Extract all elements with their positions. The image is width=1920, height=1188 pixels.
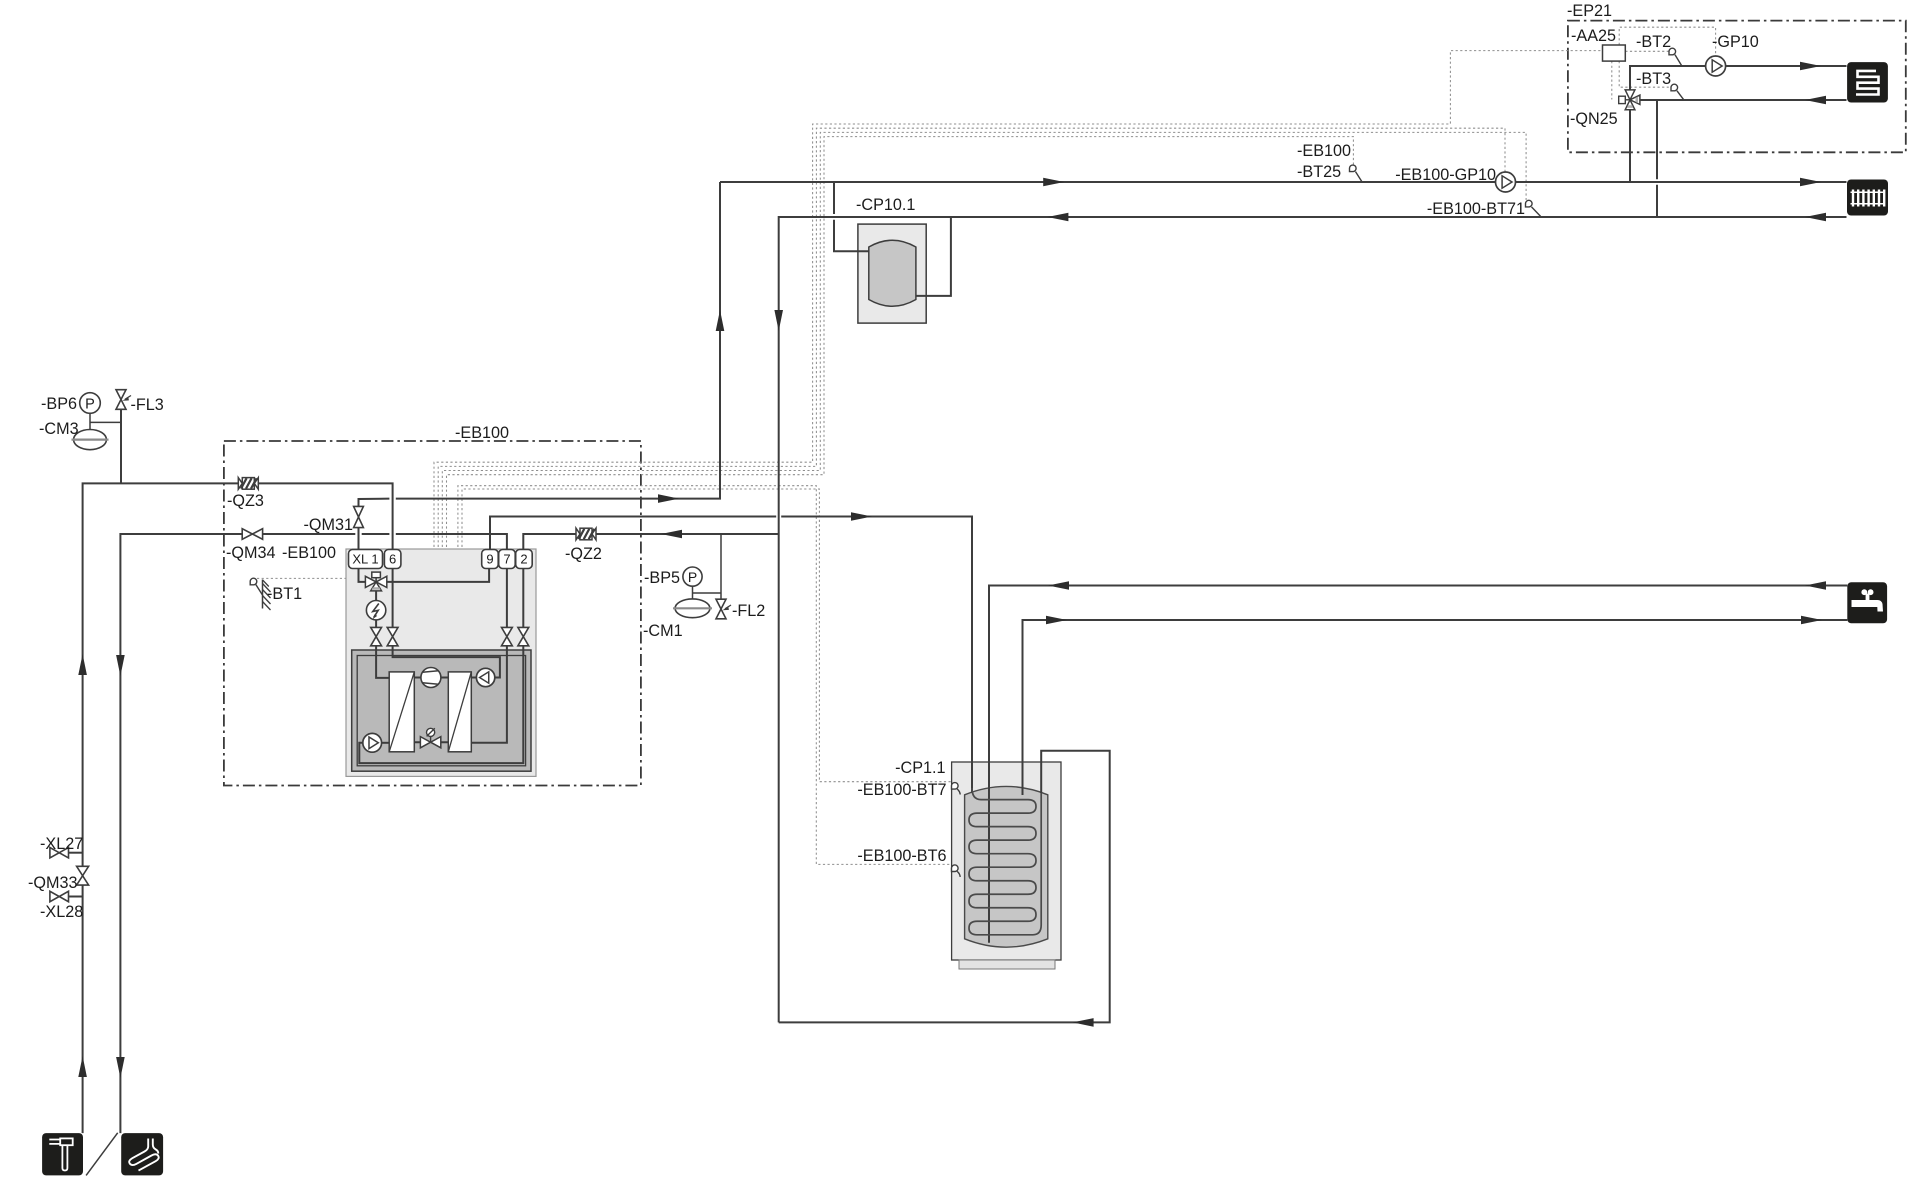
svg-text:-EB100: -EB100 — [282, 544, 336, 562]
wire/pipe: domestic hot water line from tank to tap — [1023, 620, 1848, 795]
svg-text:-EB100: -EB100 — [455, 424, 509, 442]
circulation pump GP10 — [1706, 56, 1726, 76]
shutoff valve on port 6 riser — [387, 627, 398, 645]
sensor EB100-BT7 flag at tank — [952, 783, 961, 795]
port label 6 — [384, 550, 401, 569]
safety valve FL2 — [716, 599, 731, 619]
internal pipe: port 6 to brine pump — [393, 567, 500, 678]
arrow: brine up 1 — [78, 654, 87, 675]
arrow: hot water mid — [1046, 616, 1067, 625]
svg-text:9: 9 — [486, 552, 493, 567]
svg-text:-QZ3: -QZ3 — [227, 492, 264, 510]
wire/pipe: brine-out line from port 7 to ground source (gaps at XL1 and port-6 risers) — [120, 534, 507, 1133]
svg-text:-AA25: -AA25 — [1571, 27, 1616, 45]
wire/pipe: domestic cold water line into tank dip tube — [989, 586, 1847, 943]
hot water tank CP1.1 casing — [952, 762, 1061, 960]
control module AA25 — [1603, 45, 1626, 61]
control wire bundle: unit to sensor EB100-BT25 (wire 4) — [447, 137, 1354, 547]
pressure gauge BP6 — [80, 393, 101, 414]
heating medium pump (left, internal) — [363, 733, 382, 752]
shutoff valve on port 2 riser — [518, 627, 529, 645]
connection XL27 — [50, 848, 69, 858]
arrow: supply trunk mid — [1043, 178, 1064, 187]
svg-text:-CP10.1: -CP10.1 — [856, 196, 915, 214]
arrow: supply out of unit — [658, 494, 679, 503]
svg-text:-EB100-BT6: -EB100-BT6 — [857, 847, 946, 865]
filling valve component QZ3 — [238, 478, 258, 490]
internal 3-way valve QN10 — [365, 572, 386, 591]
brine pump (right, internal) — [476, 668, 494, 686]
shutoff valve on XL1 riser — [371, 627, 382, 645]
svg-text:-EB100-BT7: -EB100-BT7 — [857, 781, 946, 799]
control wire: unit to tank sensor EB100-BT7 — [462, 489, 952, 782]
wire/pipe: BP5/CM1/FL2 branch — [693, 534, 722, 600]
condenser heat exchanger — [389, 672, 414, 752]
heat pump inner module (dark enclosure, double border) — [352, 650, 531, 771]
svg-text:-BT1: -BT1 — [267, 585, 302, 603]
control wire: AA25 to sensor BT2 — [1625, 50, 1668, 52]
arrow: return trunk at radiator — [1805, 213, 1826, 222]
svg-text:-FL3: -FL3 — [131, 396, 164, 414]
arrow: hot water at tap — [1801, 616, 1822, 625]
svg-text:-CM3: -CM3 — [39, 420, 79, 438]
control wire: unit to tank sensor EB100-BT6 — [458, 486, 952, 865]
shutoff valve QM31 — [354, 506, 364, 527]
safety valve FL3 — [116, 390, 131, 410]
svg-text:-XL27: -XL27 — [40, 835, 83, 853]
svg-text:-EB100-GP10: -EB100-GP10 — [1395, 166, 1496, 184]
ground collector icon — [121, 1133, 163, 1175]
shutoff valve QM33 — [77, 866, 89, 885]
wire/pipe: CP1.1 charge loop (coil outlet around to return riser) — [779, 751, 1110, 1023]
filling valve component QZ2 — [576, 528, 596, 540]
internal pipe: compressor connections — [414, 678, 448, 743]
control wire: AA25 to valve QN25 — [1611, 61, 1613, 99]
wire/pipe: heating return trunk from radiator icon — [779, 217, 1847, 1022]
buffer tank CP10.1 vessel — [869, 240, 916, 306]
svg-text:-QZ2: -QZ2 — [565, 545, 602, 563]
connection XL28 — [50, 891, 69, 901]
evaporator heat exchanger — [448, 672, 471, 752]
svg-text:-FL2: -FL2 — [732, 602, 765, 620]
hot water tap icon — [1847, 582, 1887, 623]
svg-text:-CP1.1: -CP1.1 — [895, 759, 945, 777]
arrow: CP1.1 loop bottom — [1073, 1018, 1094, 1027]
arrow: return trunk mid — [1047, 213, 1068, 222]
svg-text:-BP6: -BP6 — [41, 395, 77, 413]
svg-text:6: 6 — [389, 552, 396, 567]
arrow: return riser down — [774, 310, 783, 331]
sensor BT3 flag — [1671, 84, 1683, 99]
arrow: EP21 return — [1805, 96, 1826, 105]
expansion vessel CM3 — [72, 430, 109, 450]
svg-text:-EB100-BT71: -EB100-BT71 — [1427, 200, 1525, 218]
arrow: brine up 2 — [78, 1056, 87, 1077]
outdoor sensor BT1 — [250, 578, 270, 610]
internal pipe: brine pump to evaporator — [471, 677, 476, 679]
control wire: AA25 to pump GP10 — [1619, 27, 1715, 55]
svg-text:-GP10: -GP10 — [1712, 33, 1759, 51]
svg-text:-BT2: -BT2 — [1636, 33, 1671, 51]
svg-text:P: P — [85, 397, 95, 413]
svg-text:-EP21: -EP21 — [1567, 2, 1612, 20]
svg-text:-QM33: -QM33 — [28, 874, 77, 892]
wire/pipe: brine-in line from ground source to port 6 (with QZ3) — [83, 483, 393, 1133]
compressor — [421, 668, 441, 688]
svg-text:-QM34: -QM34 — [226, 544, 275, 562]
sensor EB100-BT25 flag — [1350, 165, 1362, 181]
internal pipe: heating pump to condenser — [382, 742, 390, 744]
arrow: cold water at tap — [1805, 581, 1826, 590]
heat pump EB100 unit body (outer casing) — [346, 549, 536, 776]
port label 2 — [516, 550, 533, 569]
svg-text:-BP5: -BP5 — [644, 569, 680, 587]
internal pipe: port 2 to heating pump — [359, 567, 523, 763]
arrow: supply trunk at radiator — [1800, 178, 1821, 187]
expansion vessel CM1 — [673, 599, 712, 618]
svg-text:P: P — [688, 569, 697, 585]
svg-text:-CM1: -CM1 — [643, 622, 683, 640]
arrow: return into port 2 — [661, 530, 682, 539]
wire/pipe: heating return branch into port 2 (via QZ2, BP5 tee) — [523, 534, 778, 550]
arrow: brine down 1 — [116, 655, 125, 676]
sensor EB100-BT71 flag — [1526, 200, 1541, 216]
hot water tank CP1.1 vessel — [965, 786, 1048, 947]
pressure gauge BP5 — [683, 567, 702, 586]
wire/pipe: EP21 floor circuit supply (QN25 to floor heating icon) — [1630, 66, 1847, 90]
arrow: charge line to tank — [851, 512, 872, 521]
svg-text:XL 1: XL 1 — [352, 552, 378, 567]
control wire bundle: unit to AA25 (wire 1) — [434, 51, 1603, 547]
radiator icon — [1847, 180, 1888, 216]
wire/pipe: CP10.1 outlet up to return trunk — [916, 217, 951, 296]
svg-text:2: 2 — [520, 552, 527, 567]
wire/pipe: heating supply trunk to radiator icon — [720, 181, 1847, 183]
control wire: outdoor sensor BT1 to unit — [257, 577, 346, 579]
wire/pipe: EP21 floor circuit return (floor heating icon to QN25) — [1640, 99, 1846, 101]
shutoff valve QM34 — [242, 529, 262, 540]
control wire bundle: unit to sensor EB100-BT71 (wire 3) — [442, 132, 1526, 547]
internal pipe: 3-way valve to electric heater to condenser — [376, 591, 389, 678]
svg-text:-QM31: -QM31 — [304, 516, 353, 534]
control wire bundle: unit to pump EB100-GP10 (wire 2) — [438, 128, 1505, 547]
control wire: AA25 to sensor BT3 — [1619, 61, 1669, 87]
port label 9 — [482, 550, 499, 569]
circulation pump EB100-GP10 — [1496, 172, 1516, 192]
underfloor heating icon — [1847, 62, 1888, 102]
wire/pipe: XL28 stub — [69, 896, 83, 898]
wire/pipe: heating supply from XL1 via QM31 up to radiator line — [359, 182, 721, 550]
ground source borehole icon — [42, 1133, 83, 1175]
svg-text:-BT3: -BT3 — [1636, 70, 1671, 88]
arrow: supply riser up — [716, 310, 725, 331]
shunt valve QN25 — [1619, 90, 1640, 110]
port label XL 1 — [349, 550, 383, 569]
port label 7 — [499, 550, 516, 569]
svg-text:-BT25: -BT25 — [1297, 163, 1341, 181]
sensor EB100-BT6 flag at tank — [952, 865, 961, 877]
buffer tank CP10.1 casing — [858, 224, 926, 323]
sensor BT2 flag — [1669, 48, 1681, 65]
wire/pipe: hot water charge line port 9 to tank coil (gap at return riser) — [490, 517, 972, 794]
hot water tank CP1.1 pedestal — [959, 960, 1055, 969]
separator between source icons — [86, 1133, 118, 1176]
svg-text:-EB100: -EB100 — [1297, 142, 1351, 160]
wire/pipe: CP10.1 feed from supply line (gap at return trunk) — [834, 182, 869, 251]
wire/pipe: XL27 stub — [69, 852, 83, 854]
svg-text:7: 7 — [503, 552, 510, 567]
arrow: brine down 2 — [116, 1057, 125, 1078]
EP21 climate system 2 boundary (dash-dot box) — [1568, 21, 1906, 153]
internal pipe: XL1 to 3-way valve QN10 and to port 9 — [359, 567, 490, 582]
svg-text:-XL28: -XL28 — [40, 903, 83, 921]
wire/pipe: BP6/CM3 branch — [90, 413, 121, 429]
arrow: EP21 supply — [1800, 62, 1821, 71]
internal pipe: port 7 from evaporator — [471, 567, 507, 743]
wire/pipe: QN25 supply tap riser — [1629, 110, 1631, 182]
arrow: cold water mid — [1048, 581, 1069, 590]
EB100 system boundary (dash-dot box) — [224, 441, 641, 786]
shutoff valve on port 7 riser — [502, 627, 513, 645]
wire/pipe: safety valve FL3 stub — [120, 409, 122, 483]
expansion valve — [420, 728, 440, 748]
heating coil inside tank CP1.1 — [969, 788, 1041, 935]
electric heater element — [366, 601, 385, 620]
svg-text:-QN25: -QN25 — [1570, 110, 1618, 128]
wire/pipe: EP21 return drop to heating return trunk (gap at supply) — [1656, 100, 1658, 217]
